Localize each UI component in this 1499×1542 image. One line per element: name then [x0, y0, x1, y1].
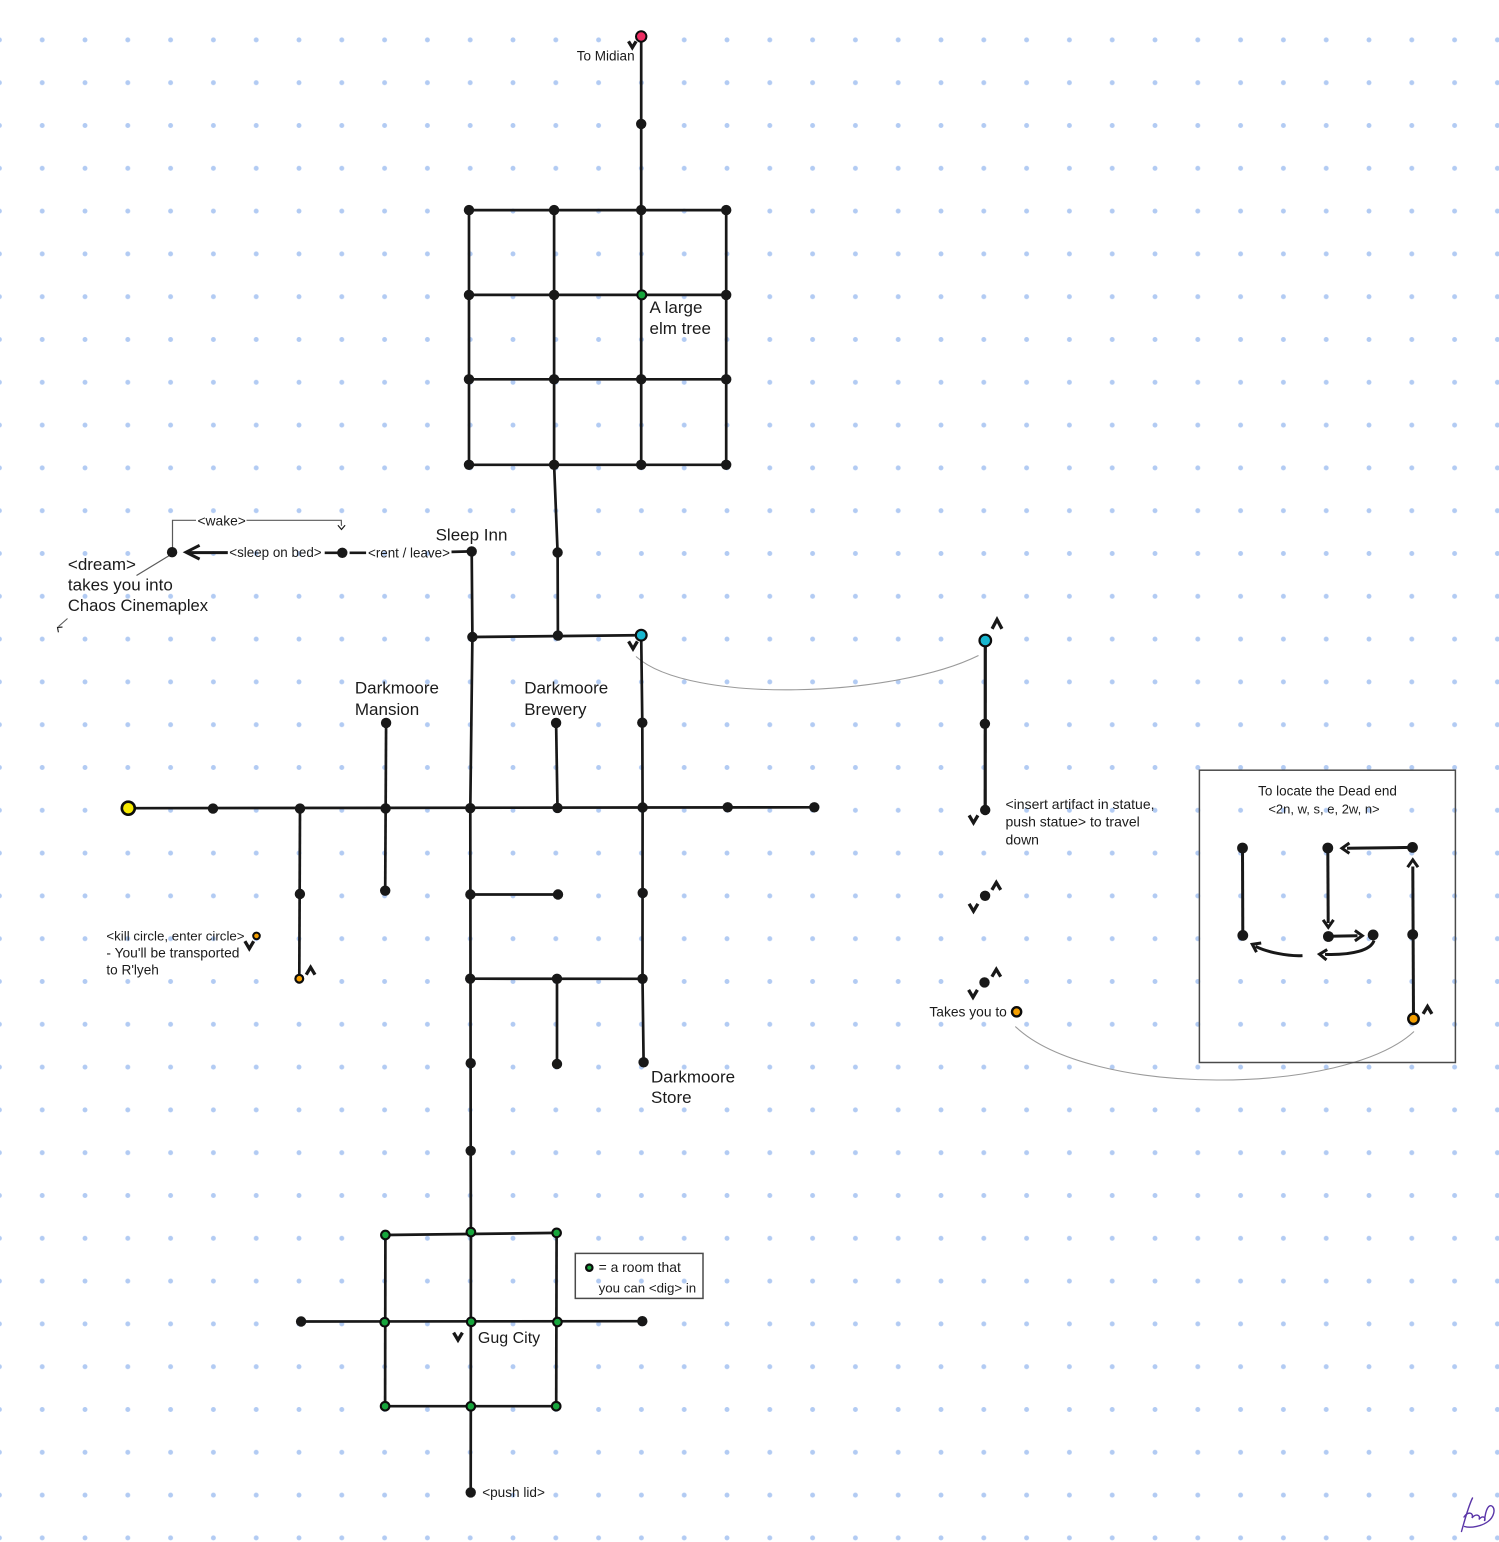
svg-text:<dream>: <dream> — [68, 555, 136, 574]
svg-text:Darkmoore: Darkmoore — [524, 679, 608, 698]
svg-text:Brewery: Brewery — [524, 700, 587, 719]
svg-text:<wake>: <wake> — [198, 513, 246, 528]
svg-text:To Midian: To Midian — [577, 49, 635, 64]
svg-text:<push lid>: <push lid> — [482, 1485, 545, 1500]
svg-text:to R'lyeh: to R'lyeh — [106, 963, 158, 978]
svg-text:Mansion: Mansion — [355, 700, 419, 719]
svg-text:= a room that: = a room that — [599, 1259, 681, 1275]
svg-text:<2n, w, s, e, 2w, n>: <2n, w, s, e, 2w, n> — [1268, 801, 1379, 816]
svg-text:Darkmoore: Darkmoore — [651, 1068, 735, 1087]
svg-text:Darkmoore: Darkmoore — [355, 679, 439, 698]
svg-text:To locate the Dead end: To locate the Dead end — [1258, 784, 1397, 799]
svg-text:<insert artifact in statue,: <insert artifact in statue, — [1006, 796, 1155, 812]
svg-text:Gug City: Gug City — [478, 1330, 540, 1347]
svg-text:takes you into: takes you into — [68, 576, 173, 595]
svg-text:Store: Store — [651, 1088, 692, 1107]
svg-text:<kill circle, enter circle>: <kill circle, enter circle> — [106, 928, 244, 943]
svg-text:down: down — [1006, 832, 1039, 848]
svg-text:- You'll be transported: - You'll be transported — [106, 946, 239, 961]
svg-text:Takes you to: Takes you to — [929, 1004, 1007, 1019]
svg-text:Sleep Inn: Sleep Inn — [436, 525, 508, 544]
svg-text:elm tree: elm tree — [650, 319, 711, 338]
svg-text:push statue> to travel: push statue> to travel — [1006, 814, 1140, 830]
svg-text:you can <dig> in: you can <dig> in — [599, 1281, 697, 1296]
svg-text:<rent / leave>: <rent / leave> — [368, 545, 450, 560]
svg-text:A large: A large — [650, 298, 703, 317]
svg-text:<sleep on bed>: <sleep on bed> — [229, 545, 322, 560]
svg-text:Chaos Cinemaplex: Chaos Cinemaplex — [68, 596, 209, 615]
